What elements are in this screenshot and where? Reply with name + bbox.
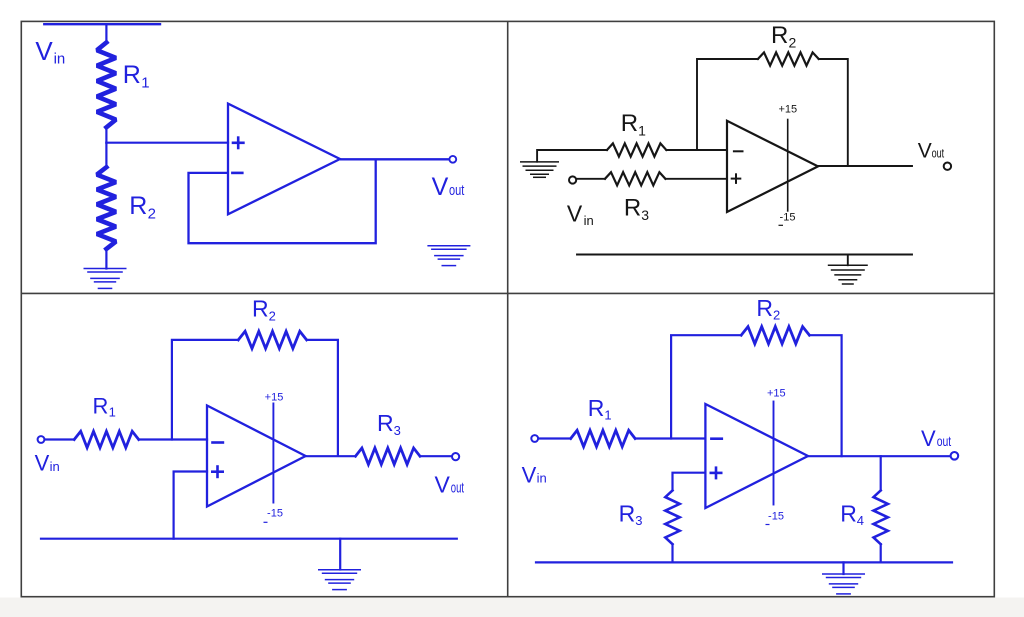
resistor R2 bbox=[238, 331, 306, 348]
svg-text:V: V bbox=[567, 201, 583, 227]
wire: rail to ground bbox=[842, 562, 844, 574]
wire: feedback left vertical bbox=[172, 340, 238, 440]
wire: feedback left vertical bbox=[671, 335, 741, 438]
wire: R3 to terminal bbox=[420, 455, 453, 457]
svg-text:-15: -15 bbox=[267, 508, 283, 520]
svg-text:2: 2 bbox=[148, 206, 156, 223]
node: output terminal bbox=[449, 156, 456, 163]
resistor R1 bbox=[74, 431, 139, 447]
svg-text:2: 2 bbox=[269, 309, 276, 324]
wire: V+/V- power line bbox=[272, 404, 274, 503]
svg-text:2: 2 bbox=[773, 308, 780, 323]
resistor R2 bbox=[97, 167, 116, 249]
resistor R2 bbox=[741, 327, 809, 344]
wire: Vin to R1 bbox=[538, 437, 571, 439]
wire: output bbox=[808, 455, 951, 457]
node: input terminal Vin bbox=[569, 176, 576, 183]
wire: Vin to R3 bbox=[576, 178, 605, 180]
node: ground rail bbox=[536, 561, 952, 563]
wire: V+/V- power line bbox=[773, 402, 775, 505]
resistor R1 bbox=[571, 430, 635, 446]
wire: feedback top left bbox=[697, 59, 758, 150]
wire: rail to ground bbox=[847, 255, 849, 266]
svg-text:out: out bbox=[451, 480, 465, 497]
svg-text:out: out bbox=[937, 433, 952, 449]
svg-text:out: out bbox=[449, 182, 465, 199]
svg-text:+15: +15 bbox=[265, 391, 284, 403]
svg-text:V: V bbox=[918, 140, 932, 163]
ground (input, left) bbox=[520, 162, 559, 177]
wire: V+ / V- power line bbox=[787, 120, 789, 211]
svg-text:2: 2 bbox=[789, 35, 797, 51]
node: ground rail bbox=[577, 254, 912, 256]
svg-text:in: in bbox=[54, 50, 66, 67]
wire: output bbox=[818, 165, 912, 167]
svg-text:+15: +15 bbox=[778, 103, 797, 115]
pin + bbox=[731, 173, 742, 184]
pin - bbox=[211, 441, 224, 444]
wire: R4 to rail bbox=[880, 544, 882, 562]
svg-text:R: R bbox=[588, 395, 605, 421]
svg-text:R: R bbox=[624, 195, 641, 222]
svg-text:3: 3 bbox=[641, 207, 649, 223]
svg-text:-15: -15 bbox=[768, 510, 784, 522]
svg-text:3: 3 bbox=[394, 423, 401, 438]
wire: ground stub to R1 bbox=[537, 150, 607, 162]
ground (rail, bottom) bbox=[822, 574, 865, 594]
svg-text:out: out bbox=[932, 146, 945, 161]
wire: R1 to - input bbox=[635, 437, 705, 439]
resistor R1 bbox=[97, 43, 116, 128]
svg-text:+15: +15 bbox=[767, 388, 786, 400]
wire: R3 to rail bbox=[671, 544, 673, 562]
node: ground rail bbox=[41, 538, 457, 540]
op-amp U3 bbox=[207, 406, 306, 507]
pin + bbox=[710, 466, 723, 479]
pin + bbox=[211, 465, 224, 478]
wire: feedback right down bbox=[819, 59, 848, 166]
svg-text:R: R bbox=[619, 501, 636, 527]
svg-text:in: in bbox=[537, 470, 547, 485]
resistor R3 bbox=[665, 490, 679, 544]
svg-text:V: V bbox=[921, 426, 936, 451]
wire: feedback right vertical bbox=[307, 340, 338, 456]
wire: R3 to + input bbox=[665, 178, 727, 180]
pin + bbox=[232, 136, 245, 149]
svg-text:1: 1 bbox=[141, 75, 149, 92]
ground (rail, bottom) bbox=[828, 265, 868, 284]
wire: + input left bbox=[673, 473, 706, 491]
svg-text:R: R bbox=[771, 22, 788, 49]
svg-text:V: V bbox=[35, 451, 50, 476]
svg-text:R: R bbox=[756, 295, 773, 321]
node: Vin top rail bbox=[44, 23, 160, 25]
svg-text:1: 1 bbox=[109, 405, 116, 420]
node: output terminal bbox=[944, 163, 951, 170]
wire: R2 to ground bbox=[105, 249, 107, 269]
resistor R2 bbox=[758, 52, 819, 65]
wire: R1 to - input bbox=[139, 438, 207, 440]
op-amp U2 bbox=[727, 121, 818, 212]
node: input terminal Vin bbox=[38, 436, 45, 443]
wire: output bbox=[340, 158, 449, 160]
svg-text:-15: -15 bbox=[780, 212, 796, 224]
svg-text:4: 4 bbox=[857, 513, 864, 528]
svg-text:3: 3 bbox=[635, 513, 642, 528]
op-amp U4 bbox=[705, 404, 808, 508]
svg-text:V: V bbox=[522, 462, 537, 487]
wire: feedback right vertical bbox=[809, 335, 841, 456]
pin - bbox=[710, 437, 723, 440]
node: input terminal Vin bbox=[531, 435, 538, 442]
wire: rail to R1 bbox=[105, 24, 107, 43]
wire: Vin to R1 bbox=[45, 438, 75, 440]
ground (floating, lower right) bbox=[427, 246, 470, 266]
bottom grey strip bbox=[0, 598, 1024, 617]
wire: rail to ground bbox=[339, 539, 341, 570]
svg-text:V: V bbox=[35, 36, 53, 66]
op-amp U1 bbox=[228, 104, 340, 215]
svg-text:1: 1 bbox=[604, 408, 611, 423]
node: output terminal bbox=[452, 453, 459, 460]
resistor R3 bbox=[605, 172, 665, 185]
svg-text:R: R bbox=[252, 296, 269, 322]
resistor R3 bbox=[356, 448, 421, 464]
svg-text:1: 1 bbox=[638, 122, 646, 138]
svg-text:V: V bbox=[435, 472, 451, 498]
svg-text:R: R bbox=[840, 501, 857, 527]
horizontal divider bbox=[21, 292, 994, 294]
node: output terminal bbox=[951, 452, 959, 460]
svg-text:R: R bbox=[621, 110, 638, 137]
wire: output to R4 bbox=[880, 456, 882, 490]
wire: R1 to node bbox=[105, 127, 107, 143]
wire: output to R3 bbox=[306, 455, 356, 457]
pin - bbox=[231, 172, 244, 175]
svg-text:in: in bbox=[50, 459, 60, 474]
wire: + input to rail bbox=[174, 472, 207, 539]
vertical divider bbox=[507, 21, 509, 596]
wire: node to R2 bbox=[105, 143, 107, 168]
resistor R1 bbox=[607, 143, 666, 156]
resistor R4 bbox=[874, 490, 888, 544]
ground (rail, bottom) bbox=[318, 570, 361, 590]
svg-text:in: in bbox=[584, 213, 594, 228]
wire: feedback loop from - input bbox=[189, 159, 376, 243]
ground (below R2) bbox=[84, 269, 127, 289]
svg-text:V: V bbox=[432, 173, 449, 201]
node A: junction to + input bbox=[106, 142, 228, 144]
svg-text:R: R bbox=[129, 192, 147, 220]
pin - bbox=[733, 150, 744, 152]
wire: R1 to - input bbox=[666, 149, 727, 151]
svg-text:R: R bbox=[377, 410, 394, 436]
svg-text:R: R bbox=[93, 393, 109, 418]
svg-text:R: R bbox=[123, 61, 141, 89]
